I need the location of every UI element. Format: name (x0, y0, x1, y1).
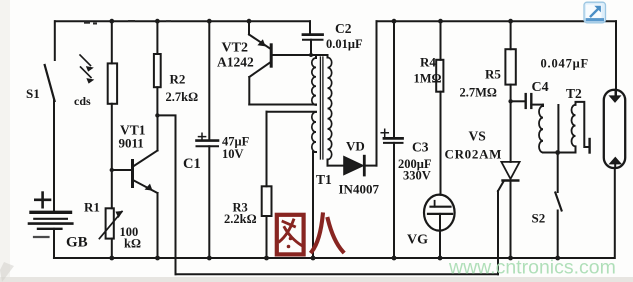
switch S2 (555, 153, 561, 259)
diode VD (328, 156, 377, 175)
battery GB (29, 193, 72, 237)
svg-text:S1: S1 (26, 86, 40, 101)
svg-text:VG: VG (407, 233, 428, 248)
wire flashtube top lead (615, 21, 617, 96)
svg-text:www.cntronics.com: www.cntronics.com (448, 257, 616, 279)
svg-text:kΩ: kΩ (124, 237, 141, 251)
capacitor C1 (197, 21, 219, 258)
svg-text:CR02AM: CR02AM (445, 147, 503, 162)
svg-text:C2: C2 (335, 21, 352, 36)
capacitor C2 (303, 21, 323, 55)
switch S1 (45, 65, 55, 101)
wire VT1 base (112, 169, 132, 171)
resistor R3 (262, 112, 272, 258)
svg-text:0.01μF: 0.01μF (326, 37, 363, 51)
wire cds branch top (111, 21, 113, 63)
svg-text:2.7kΩ: 2.7kΩ (166, 90, 199, 104)
wire trigger from T2 (576, 102, 589, 147)
wire T1 upper tap (249, 104, 316, 106)
svg-text:R1: R1 (84, 200, 100, 215)
wire gate riser (497, 191, 499, 274)
transistor VT2 (249, 21, 311, 104)
flash tube (604, 90, 625, 258)
scan edge artifacts (0, 0, 10, 282)
svg-text:cds: cds (74, 94, 91, 108)
wire top-right rail (377, 20, 617, 22)
svg-text:C3: C3 (412, 140, 429, 155)
resistor R2 (154, 21, 161, 115)
capacitor C4 (511, 94, 543, 108)
svg-text:0.047μF: 0.047μF (541, 57, 589, 71)
wire bottom rail (54, 257, 614, 259)
resistor R5 (505, 21, 515, 84)
svg-text:9011: 9011 (119, 136, 144, 151)
svg-text:C1: C1 (183, 156, 201, 172)
trigger electrode (588, 139, 590, 153)
wire T1 top node (311, 54, 328, 56)
svg-text:2.7MΩ: 2.7MΩ (460, 86, 497, 100)
wire T1 lower tap (267, 111, 317, 113)
wire left rail upper (54, 21, 56, 60)
resistor R1 (variable) (99, 208, 122, 258)
svg-text:S2: S2 (532, 211, 546, 226)
svg-text:10V: 10V (222, 147, 244, 161)
transformer T2 (539, 105, 576, 153)
wire battery to bottom rail (53, 229, 55, 258)
svg-text:R2: R2 (170, 72, 186, 87)
svg-text:T2: T2 (566, 86, 582, 101)
svg-text:T1: T1 (316, 172, 332, 187)
resistor R4 (436, 21, 443, 195)
wire R2 node to lower gate rail drop (157, 115, 175, 274)
wire S1 to battery (53, 100, 55, 212)
wire VD right vertical (376, 21, 378, 165)
svg-text:A1242: A1242 (217, 55, 254, 70)
cds arrows (80, 55, 93, 83)
svg-text:VS: VS (469, 129, 486, 144)
svg-text:C4: C4 (532, 80, 549, 95)
photoresistor cds (108, 63, 117, 103)
capacitor C3 (381, 21, 402, 258)
transistor VT1 (133, 115, 158, 258)
transformer T1 (312, 55, 332, 258)
svg-text:GB: GB (66, 235, 88, 251)
svg-text:VT2: VT2 (222, 41, 248, 56)
red caption TuBa (figure 8) (277, 215, 343, 255)
neon lamp VG (424, 195, 455, 258)
svg-text:VD: VD (346, 139, 365, 154)
svg-text:R4: R4 (420, 55, 436, 70)
thyristor VS (498, 85, 520, 258)
svg-text:2.2kΩ: 2.2kΩ (224, 212, 257, 226)
blue icon (584, 2, 606, 23)
svg-text:R5: R5 (485, 67, 501, 82)
scan speckles (84, 20, 171, 25)
wire top-left rail (55, 20, 310, 22)
wire cds to base node (111, 104, 113, 209)
svg-text:330V: 330V (403, 169, 431, 183)
wire lower gate rail (176, 273, 499, 275)
svg-text:IN4007: IN4007 (339, 182, 380, 197)
svg-text:1MΩ: 1MΩ (414, 72, 442, 86)
